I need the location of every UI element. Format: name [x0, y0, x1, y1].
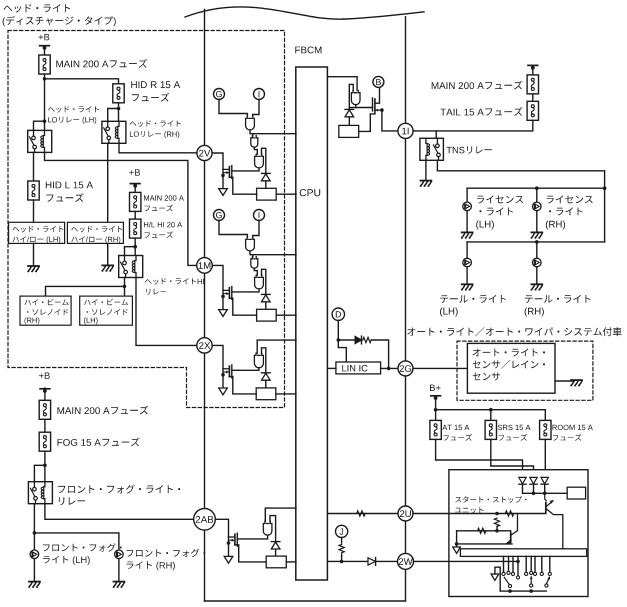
wire TNS switch to lamp bus	[437, 160, 604, 242]
label fuse AT line1	[442, 425, 469, 430]
ground license LH	[462, 232, 473, 238]
label fuse ROOM line2	[553, 434, 582, 441]
wire J to resistor	[341, 538, 343, 544]
label license RH line2	[549, 207, 583, 215]
contact point 9	[548, 572, 551, 575]
label license LH line1	[477, 195, 523, 203]
wire gate b out block1	[254, 147, 257, 154]
wire left bus 2V-1M	[204, 161, 206, 258]
resistor sense R2	[257, 309, 277, 321]
junction LIN output	[387, 367, 391, 371]
wire diode2 stub	[533, 484, 535, 493]
wire CPU to gate5	[327, 77, 357, 91]
wire 2V to FET1	[212, 153, 223, 169]
label hi/lo LH line1	[13, 226, 64, 233]
wire resistor to CPU block1	[276, 193, 296, 195]
resistor sense R3	[256, 388, 276, 400]
wire SRS drop	[490, 410, 492, 421]
node D input	[332, 308, 344, 320]
label fog light RH line2	[127, 561, 175, 570]
wire gate a out block1	[250, 130, 253, 138]
label fog relay line2	[59, 497, 85, 505]
wire diode to resistor block1	[265, 181, 267, 188]
label fuse HID L line2	[46, 193, 83, 202]
diode clamp D3	[262, 373, 271, 380]
wire resistor to 2G net	[371, 340, 388, 368]
wire gate5 line left stub	[349, 107, 355, 109]
wire RH relay coil to 2V	[119, 143, 197, 153]
wire D to diode	[338, 339, 355, 341]
box auto light / rain sensor	[467, 343, 555, 393]
contact point 2	[507, 571, 510, 574]
label fog light RH line1	[127, 549, 206, 557]
box unit logic block	[567, 487, 585, 499]
wire right bus 1I-2G	[405, 139, 407, 361]
gate buffer U2b	[251, 257, 258, 269]
wire gate4 to FET gate	[237, 535, 267, 539]
label start-stop line1	[455, 496, 526, 503]
wire left pulldown	[456, 531, 458, 547]
wire resistor3 to CPU	[276, 393, 296, 395]
gate output driver U5c	[351, 91, 360, 105]
dashed box auto light option	[457, 341, 593, 400]
junction HID R out	[117, 107, 121, 111]
fuse HID R 15A	[113, 84, 124, 103]
label CPU	[300, 189, 321, 196]
transistor output MOSFET Q1	[221, 166, 232, 189]
+B battery feed 1	[39, 34, 50, 50]
node connector 2V	[197, 145, 212, 160]
wire fog relay switch down	[33, 504, 35, 550]
ground front fog LH	[29, 582, 40, 588]
wire resistor4 to CPU	[286, 561, 296, 563]
label tail RH line1	[525, 295, 591, 303]
label HI relay line2	[146, 289, 166, 295]
wire to CPU pin block1	[253, 133, 296, 135]
label start-stop line2	[455, 507, 483, 513]
resistor 2U line zigzag	[357, 511, 365, 516]
wire FET3 source to resistor	[229, 377, 256, 394]
wire arrow elbow	[495, 567, 500, 591]
transistor output MOSFET Q4	[227, 533, 238, 556]
wire diode4 to resistor	[275, 549, 277, 556]
junction bottom bus 2	[529, 589, 533, 593]
wire CPU to gate3	[257, 340, 296, 353]
wire license LH drop	[466, 188, 468, 202]
wire license LH to ground	[466, 211, 468, 232]
wire feedback loop block4	[270, 516, 276, 542]
arrow output symbol block1	[219, 189, 228, 196]
junction J on 2W line	[340, 560, 344, 564]
node connector 2W	[398, 553, 414, 569]
wire contact stub 6	[530, 556, 532, 570]
wire 2G to sensor box	[413, 367, 467, 369]
wire FET4 source to resistor	[235, 545, 266, 562]
wire MAIN right to TAIL fuse	[532, 94, 534, 101]
fuse H/L HI 20A	[130, 219, 141, 238]
label LIN IC	[342, 365, 367, 372]
wire HID R fuse down	[118, 103, 120, 122]
wire tail lamp bus	[467, 241, 604, 243]
wire contact stub 1	[503, 556, 505, 571]
label solenoid LH line1	[84, 299, 128, 306]
wire 1M to FET2	[212, 265, 223, 290]
wire LIN IC to 2G	[381, 367, 398, 369]
wire FOG fuse to relay coil	[44, 451, 46, 482]
wire LH fog light to ground	[33, 559, 35, 581]
node connector 1M	[197, 258, 213, 274]
wire right bus 2U-2W	[405, 521, 407, 553]
wire base line T2	[457, 531, 511, 533]
wire HI relay switch down	[124, 278, 126, 297]
arrow unit ground down	[491, 574, 499, 580]
lamp tail light RH	[533, 258, 542, 267]
wire H/L HI fuse to HI relay coil	[134, 238, 136, 255]
lamp license light LH	[463, 202, 472, 211]
node G input block1	[214, 89, 225, 100]
label fuse H/L HI line2	[145, 231, 174, 238]
wire CPU to 2W	[327, 560, 368, 562]
wire feedback loop block3	[262, 348, 266, 373]
junction SRS drop	[489, 408, 493, 412]
wire tail RH to ground	[536, 267, 538, 284]
bus bar start-stop unit	[460, 549, 586, 557]
box CPU	[296, 67, 328, 580]
wire G lead block1	[219, 100, 247, 117]
title line 2	[3, 16, 116, 26]
label license RH line3	[546, 221, 565, 230]
wire gate c to FET gate block1	[232, 168, 259, 171]
wire gate3 to FET gate	[232, 368, 259, 371]
label fuse AT line2	[443, 434, 472, 441]
node connector 2G	[398, 361, 413, 376]
label HI relay line1	[145, 278, 204, 285]
label fog relay line1	[58, 485, 180, 494]
ground tail LH	[462, 284, 473, 290]
wire diode3 stub	[544, 484, 546, 493]
junction license RH drop	[535, 186, 539, 190]
wire gate b out block2	[254, 268, 257, 275]
page-edge wavy cut line	[185, 7, 424, 19]
arrow output symbol block4	[224, 556, 233, 563]
junction fog relay feed	[43, 464, 47, 468]
label fuse SRS line2	[499, 434, 528, 441]
relay headlight LO (RH)	[102, 121, 126, 143]
title line 1	[4, 4, 71, 12]
wire feedback loop block5	[349, 84, 353, 109]
wire CPU to LIN IC	[327, 367, 336, 369]
wire license RH to ground	[536, 211, 538, 232]
label hi/lo RH line2	[71, 236, 120, 244]
gate input buffer U2a	[246, 237, 255, 251]
contact point 6	[530, 571, 533, 574]
fuse HID L 15A	[28, 181, 39, 200]
resistor J zigzag	[339, 544, 344, 552]
junction unit base node	[495, 529, 499, 533]
wire sensor to ground	[555, 380, 574, 382]
wire MAIN2 to H/L HI fuse	[134, 211, 136, 219]
label solenoid RH line1	[25, 299, 69, 306]
wire 2X to FET3	[212, 345, 223, 368]
wire feedback loop block2	[262, 269, 266, 294]
node connector 2U	[398, 506, 413, 521]
diode LIN series	[355, 336, 361, 344]
junction tail RH drop	[535, 240, 539, 244]
fuse TAIL 15A	[527, 101, 538, 120]
wire RH relay switch to hi-lo RH unit	[107, 143, 109, 222]
gate output driver U3c	[254, 353, 263, 368]
wire unit bottom bus	[500, 590, 546, 592]
arrow output symbol block2	[219, 310, 228, 317]
contact point 4	[516, 576, 519, 579]
wire contact stub 3	[512, 556, 514, 571]
fuse MAIN 200A no.2	[130, 192, 141, 211]
+B battery feed 3	[39, 373, 50, 393]
wire contact stub 5	[525, 556, 527, 571]
label fuse TAIL	[440, 107, 522, 116]
contact point 8	[540, 572, 543, 575]
node I input block2	[254, 210, 265, 221]
label fuse HID L line1	[46, 182, 93, 189]
wire right bus bottom riser	[405, 569, 407, 601]
wire contact stub 4	[517, 556, 519, 574]
label license LH line3	[476, 221, 494, 230]
wire I lead block2	[253, 221, 259, 238]
label headlight LO relay LH line1	[48, 106, 99, 113]
relay headlight HI	[119, 256, 143, 278]
wire I lead block1	[253, 100, 259, 117]
arrow output symbol block3	[219, 388, 228, 395]
junction B+ feeder	[434, 408, 438, 412]
ground hi/lo LH	[28, 266, 39, 272]
wire left bus 2AB-bottom	[204, 530, 206, 601]
wire feed to MAIN fuse right	[532, 68, 534, 75]
wire SRS fuse to unit	[491, 439, 534, 477]
label fuse ROOM line1	[553, 425, 593, 430]
label sensor line3	[473, 373, 501, 381]
wire diode to 2W	[376, 560, 398, 562]
wire TAIL fuse to 1I	[413, 120, 533, 131]
junction lamp bus right	[603, 186, 607, 190]
wire gate5 out to FET gate	[356, 105, 373, 108]
wire hi/lo LH to ground	[33, 243, 35, 265]
relay headlight LO (LH)	[28, 130, 52, 152]
wire feedback loop block1	[262, 148, 266, 173]
label solenoid LH line3	[84, 317, 98, 324]
wire resistor to CPU block2	[276, 314, 296, 316]
wire J resistor to 2W line	[341, 554, 343, 561]
wire branch to TNS relay	[435, 131, 437, 138]
resistor sense R4	[266, 556, 286, 568]
wire AT fuse to unit	[436, 439, 523, 477]
wire +B3 to MAIN fuse	[44, 388, 46, 400]
lamp front fog light RH	[115, 550, 124, 559]
box high-beam solenoid (LH)	[80, 296, 133, 325]
wire diode merge line	[523, 484, 568, 493]
wire contact stub 7	[534, 556, 536, 571]
wire feeder to fuses	[436, 410, 546, 421]
label sensor line2	[473, 360, 545, 369]
wire +B1 to fuse	[44, 49, 46, 56]
resistor LIN zigzag	[363, 337, 371, 342]
wire LH relay coil to 1M	[45, 152, 197, 265]
wire fog relay coil to 2AB	[45, 504, 194, 520]
wire 2W into unit	[414, 560, 518, 562]
label FBCM	[295, 47, 321, 54]
wire left bus top segment	[204, 10, 206, 146]
wire branch HI relay switch feed	[125, 247, 136, 256]
ground front fog RH	[113, 582, 124, 588]
diode clamp D5	[345, 109, 354, 116]
wire bottom link 2AB to 2W	[205, 600, 406, 602]
wire license RH drop	[536, 188, 538, 202]
node connector 1I	[398, 123, 413, 138]
junction 2W contact	[516, 560, 520, 564]
wire diode5 to resistor	[348, 117, 350, 125]
label fuse HID R line2	[132, 93, 169, 102]
resistor sense R5	[339, 125, 359, 137]
contact point 7	[533, 572, 536, 575]
wire to CPU pin block2	[253, 254, 296, 256]
wire LH relay switch to HID L fuse	[33, 152, 35, 181]
ground sensor	[571, 380, 582, 386]
wire D to LIN IC	[338, 340, 346, 362]
label fog light LH line2	[43, 556, 90, 565]
ground tail RH	[531, 284, 542, 290]
label solenoid LH line2	[87, 309, 128, 315]
wire diode3 to resistor	[265, 381, 267, 388]
label fuse FOG	[58, 438, 140, 447]
label fuse MAIN 200A no.1	[56, 59, 147, 68]
fuse MAIN 200A right	[527, 75, 538, 94]
wire branch to RH fog light	[34, 533, 119, 550]
fuse AT 15A	[430, 420, 441, 439]
gate input buffer U1a	[246, 116, 255, 130]
contact point 1	[502, 572, 505, 575]
junction 2U divider	[495, 512, 499, 516]
wire tail LH to ground	[466, 267, 468, 284]
ground TNS relay	[420, 181, 431, 187]
wire branch RH relay switch feed	[108, 109, 119, 122]
label sensor line1	[473, 349, 545, 357]
label license LH line2	[479, 207, 513, 215]
label tail RH line2	[525, 308, 544, 317]
box headlight hi/lo (RH)	[67, 222, 123, 243]
diode unit in 1	[519, 477, 526, 484]
wire gate a out block2	[250, 251, 253, 259]
label headlight LO relay LH line2	[48, 117, 96, 124]
resistor unit R2 zigzag	[494, 518, 499, 526]
label solenoid RH line2	[27, 309, 68, 315]
diode unit in 2	[530, 477, 537, 484]
junction bottom bus 1	[508, 589, 512, 593]
box high-beam solenoid (RH)	[20, 296, 71, 325]
contact point 5	[525, 572, 528, 575]
wire G lead block2	[219, 221, 247, 238]
label tail LH line2	[440, 308, 458, 317]
lamp tail light LH	[463, 258, 472, 267]
B+ battery feed	[430, 385, 441, 400]
label fuse MAIN right	[432, 81, 523, 90]
junction HI relay feed	[133, 245, 137, 249]
wire RH fog light to ground	[118, 559, 120, 581]
wire TNS coil to ground	[425, 160, 427, 180]
switch blade 2	[530, 576, 533, 588]
wire tail RH drop	[536, 242, 538, 258]
arrow unit output down	[453, 547, 461, 553]
wire CPU to gate4	[265, 508, 296, 521]
wire FET source to resistor block2	[229, 298, 256, 315]
wire HID L fuse to hi-lo LH unit	[33, 200, 35, 222]
wire HI relay coil to 2X	[136, 278, 197, 346]
lamp license light RH	[533, 202, 542, 211]
wire gate c to FET gate block2	[232, 289, 259, 292]
wire contact stub 8	[541, 556, 543, 571]
fuse SRS 15A	[485, 420, 496, 439]
junction fog lights split	[33, 531, 37, 535]
diode clamp D2	[262, 294, 271, 301]
junction LH relay feed	[43, 119, 47, 123]
label fuse MAIN2 line1	[144, 195, 184, 200]
junction +B1 branch	[43, 77, 47, 81]
wire B+ down to AT fuse	[435, 400, 437, 421]
diode clamp D4	[271, 542, 280, 549]
wire T2 emitter line	[457, 543, 512, 545]
wire contact stub 2	[508, 556, 510, 570]
transistor output MOSFET Q3	[221, 365, 232, 388]
label TNS relay	[447, 146, 492, 154]
+B battery feed 2	[129, 169, 140, 188]
fuse MAIN 200A no.1	[39, 55, 50, 74]
label hi/lo LH line2	[13, 236, 61, 244]
junction pulldown	[455, 542, 459, 546]
wire FET source to resistor block1	[229, 177, 256, 194]
junction D node	[337, 338, 341, 342]
wire left bus 2X-2AB	[204, 353, 206, 508]
fuse MAIN 200A no.3	[39, 400, 50, 419]
resistor sense R1	[257, 188, 277, 200]
label fog light LH line1	[43, 543, 122, 551]
relay TNS	[420, 138, 444, 160]
label hi/lo RH line1	[71, 226, 122, 233]
diode 2W series	[368, 558, 376, 566]
wire left bus 1M-2X	[204, 273, 206, 338]
ground hi/lo RH	[102, 265, 113, 271]
switch blade 3	[545, 576, 550, 587]
wire branch LH relay switch feed	[34, 121, 45, 130]
wire 2U into unit	[413, 513, 546, 515]
wire ROOM fuse to unit	[544, 439, 546, 477]
label fuse MAIN2 line2	[145, 205, 174, 212]
fuse FOG 15A	[39, 432, 50, 451]
resistor unit R1 zigzag	[505, 511, 513, 516]
junction solenoid branch	[123, 285, 127, 289]
contact point 3	[511, 572, 514, 575]
node J input	[336, 525, 348, 537]
transistor output MOSFET Q2	[221, 287, 232, 310]
node G input block2	[214, 210, 225, 221]
resistor unit R3 zigzag	[478, 528, 486, 533]
wire resistor5 to FET source	[359, 114, 375, 131]
wire R2 lower lead	[496, 527, 498, 531]
node I input block1	[254, 89, 265, 100]
wire 2AB to FET4	[215, 519, 228, 537]
wire CPU to 2U	[327, 513, 398, 515]
transistor output MOSFET Q5	[373, 87, 398, 131]
label headlight LO relay RH line2	[130, 131, 179, 138]
gate output driver U4c	[263, 521, 272, 535]
box LIN IC	[336, 362, 381, 374]
